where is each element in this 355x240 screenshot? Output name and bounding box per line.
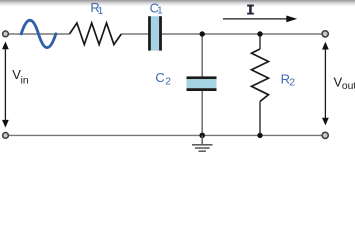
terminal top-left [3, 31, 9, 37]
AC source sine wave [21, 20, 56, 47]
svg-text:1: 1 [98, 6, 104, 17]
wire C2 upper stub [201, 34, 203, 77]
node A junction dot (top of C2 branch) [200, 31, 205, 36]
capacitor C1 left plate [148, 16, 151, 50]
ground symbol [192, 135, 213, 151]
svg-text:C: C [155, 70, 164, 85]
wire R2 lower stub [259, 102, 261, 136]
junction dot bottom of R2 branch [257, 133, 262, 138]
terminal bottom-right [322, 132, 328, 138]
wire bottom rail [9, 134, 322, 136]
wire node B to top-right terminal [260, 33, 322, 35]
svg-text:2: 2 [165, 77, 171, 88]
capacitor C1 dielectric fill [151, 16, 159, 50]
node B junction dot (top of R2 branch) [257, 31, 262, 36]
wire C1 to node A [162, 33, 202, 35]
junction dot bottom of C2 branch / ground node [199, 133, 205, 139]
resistor R1 [70, 23, 122, 45]
wire C2 lower stub [201, 91, 203, 136]
wire R2 upper stub [259, 34, 261, 49]
Vout measurement arrow line [322, 42, 329, 126]
wire node A to node B [202, 33, 260, 35]
Vin measurement arrow line [2, 42, 9, 128]
terminal top-right [322, 31, 328, 37]
label I (current) [247, 5, 254, 15]
wire R1 to C1 [121, 33, 148, 35]
resistor R2 [252, 49, 269, 102]
svg-text:1: 1 [157, 6, 163, 17]
current arrow I [223, 16, 297, 23]
svg-text:out: out [342, 81, 355, 92]
capacitor C2 top plate [187, 76, 217, 79]
capacitor C1 right plate [159, 16, 162, 50]
svg-text:2: 2 [289, 77, 295, 88]
terminal bottom-left [3, 133, 9, 139]
wire top rail left (terminal to R1) [9, 33, 70, 35]
capacitor C2 bottom plate [187, 88, 217, 91]
capacitor C2 dielectric fill [187, 79, 217, 88]
svg-text:in: in [21, 76, 29, 87]
